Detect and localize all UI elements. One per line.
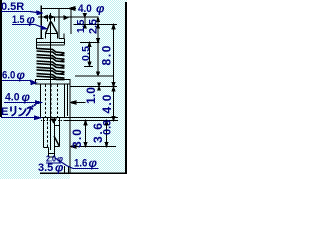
ext y86.5 [70, 86, 117, 88]
svg-text:φ: φ [89, 156, 98, 170]
background dither [0, 0, 127, 179]
svg-text:φ: φ [57, 154, 63, 164]
spring wire end tick [63, 34, 65, 39]
ext y66 [84, 66, 93, 68]
svg-text:φ: φ [17, 68, 26, 82]
long ext vertical x70 [69, 85, 71, 174]
ext line top right [70, 9, 72, 35]
svg-text:φ: φ [27, 13, 36, 27]
shaft diagonal cut [54, 136, 60, 147]
dim 3.0 vertical [85, 121, 87, 147]
bottom line y173 [40, 172, 127, 174]
リ [10, 107, 12, 112]
shaft bottom right step [55, 146, 60, 148]
1.5phi underline + leader [12, 24, 35, 26]
svg-text:1.5: 1.5 [12, 14, 25, 26]
svg-text:8.0: 8.0 [100, 45, 114, 65]
neck sides [45, 34, 47, 39]
2.0phi underline [46, 162, 61, 164]
pin left [47, 17, 49, 22]
svg-text:0.5: 0.5 [80, 46, 92, 61]
cone base [46, 33, 58, 35]
svg-text:E: E [1, 106, 8, 118]
cone left [46, 22, 51, 34]
labels [1, 1, 105, 175]
mechanical drawing of spring plunger [0, 0, 127, 179]
bore hidden left [45, 85, 47, 118]
グ [26, 107, 31, 116]
E-ring mark [50, 119, 57, 124]
centerline [50, 13, 52, 150]
dim 1.0 arrow [70, 102, 86, 104]
svg-text:φ: φ [22, 90, 31, 104]
spring top stubs [37, 38, 44, 40]
first flat coil band [37, 42, 65, 44]
bore hidden right [57, 85, 59, 118]
top dim line 4.0phi leader [59, 8, 76, 10]
bottom short verticals [64, 166, 66, 173]
4.0phi underline + leader [4, 102, 35, 104]
ext y146.5 [70, 146, 116, 148]
left border [0, 0, 2, 117]
ering groove line [41, 120, 65, 122]
svg-text:2.0: 2.0 [46, 154, 56, 163]
Ering underline + leader [1, 117, 35, 119]
arrow pair at x99 y86.5 [98, 83, 101, 86]
body step line [67, 85, 69, 117]
svg-text:6.0: 6.0 [2, 70, 16, 82]
1.6phi underline + leader [55, 158, 67, 166]
svg-text:φ: φ [96, 2, 105, 16]
svg-text:4.0: 4.0 [78, 4, 92, 16]
dim 12 vertical long [113, 25, 115, 121]
spring seat plate [35, 79, 71, 81]
body bottom / ext line [41, 117, 119, 119]
svg-text:1.5: 1.5 [76, 19, 87, 33]
head top [41, 8, 59, 10]
white box bottom right [70, 173, 127, 179]
ext y24.4 [74, 23, 118, 25]
shaft groove tick [55, 125, 60, 127]
spring coils [37, 48, 65, 79]
spring rear wire bits [59, 54, 65, 75]
dim 2.5 and 8.0 shared vertical [97, 18, 99, 76]
bottom steps [44, 147, 49, 149]
dim 3.6 vertical [106, 121, 108, 147]
lower shaft right [59, 118, 61, 147]
svg-text:0.5R: 0.5R [1, 1, 24, 13]
svg-text:2.5: 2.5 [88, 19, 100, 34]
shaft inner line [54, 118, 56, 158]
dim 1.5 vertical [84, 14, 86, 29]
svg-text:3.6: 3.6 [91, 123, 105, 143]
pin right [54, 17, 56, 22]
svg-text:4.0: 4.0 [100, 94, 114, 113]
svg-text:3.5: 3.5 [38, 162, 53, 174]
pin dim line [38, 16, 98, 18]
ext y42 [80, 42, 100, 44]
ext y75.8 [75, 75, 113, 77]
head left side [40, 6, 42, 39]
shaft hidden line [47, 118, 49, 148]
svg-text:1.0: 1.0 [84, 87, 98, 104]
body right [64, 85, 66, 118]
head right side [58, 9, 60, 39]
right border [125, 2, 127, 173]
svg-text:4.0: 4.0 [5, 91, 20, 103]
6.0phi underline + leader [2, 80, 30, 82]
body left [40, 85, 42, 118]
cone right [51, 22, 58, 34]
center hidden in body [50, 85, 52, 118]
dim 0.5 vertical [89, 43, 91, 67]
ン [19, 108, 22, 110]
rotated dims [76, 19, 100, 34]
katakana リング hand drawn [11, 104, 35, 116]
tip bottom [49, 156, 55, 158]
lower shaft left [43, 118, 45, 148]
0.5R underline + leader [1, 11, 30, 13]
svg-text:3.0: 3.0 [70, 129, 84, 148]
svg-text:1.6: 1.6 [74, 158, 88, 170]
